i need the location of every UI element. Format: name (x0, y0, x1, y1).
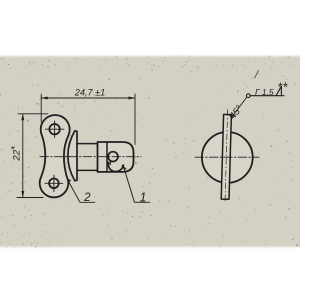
svg-text:**: ** (277, 79, 288, 94)
svg-text:24,7 ±1: 24,7 ±1 (74, 87, 106, 97)
svg-text:1: 1 (140, 191, 147, 205)
svg-text:2: 2 (83, 192, 91, 204)
svg-text:Г 1,5: Г 1,5 (255, 87, 274, 97)
